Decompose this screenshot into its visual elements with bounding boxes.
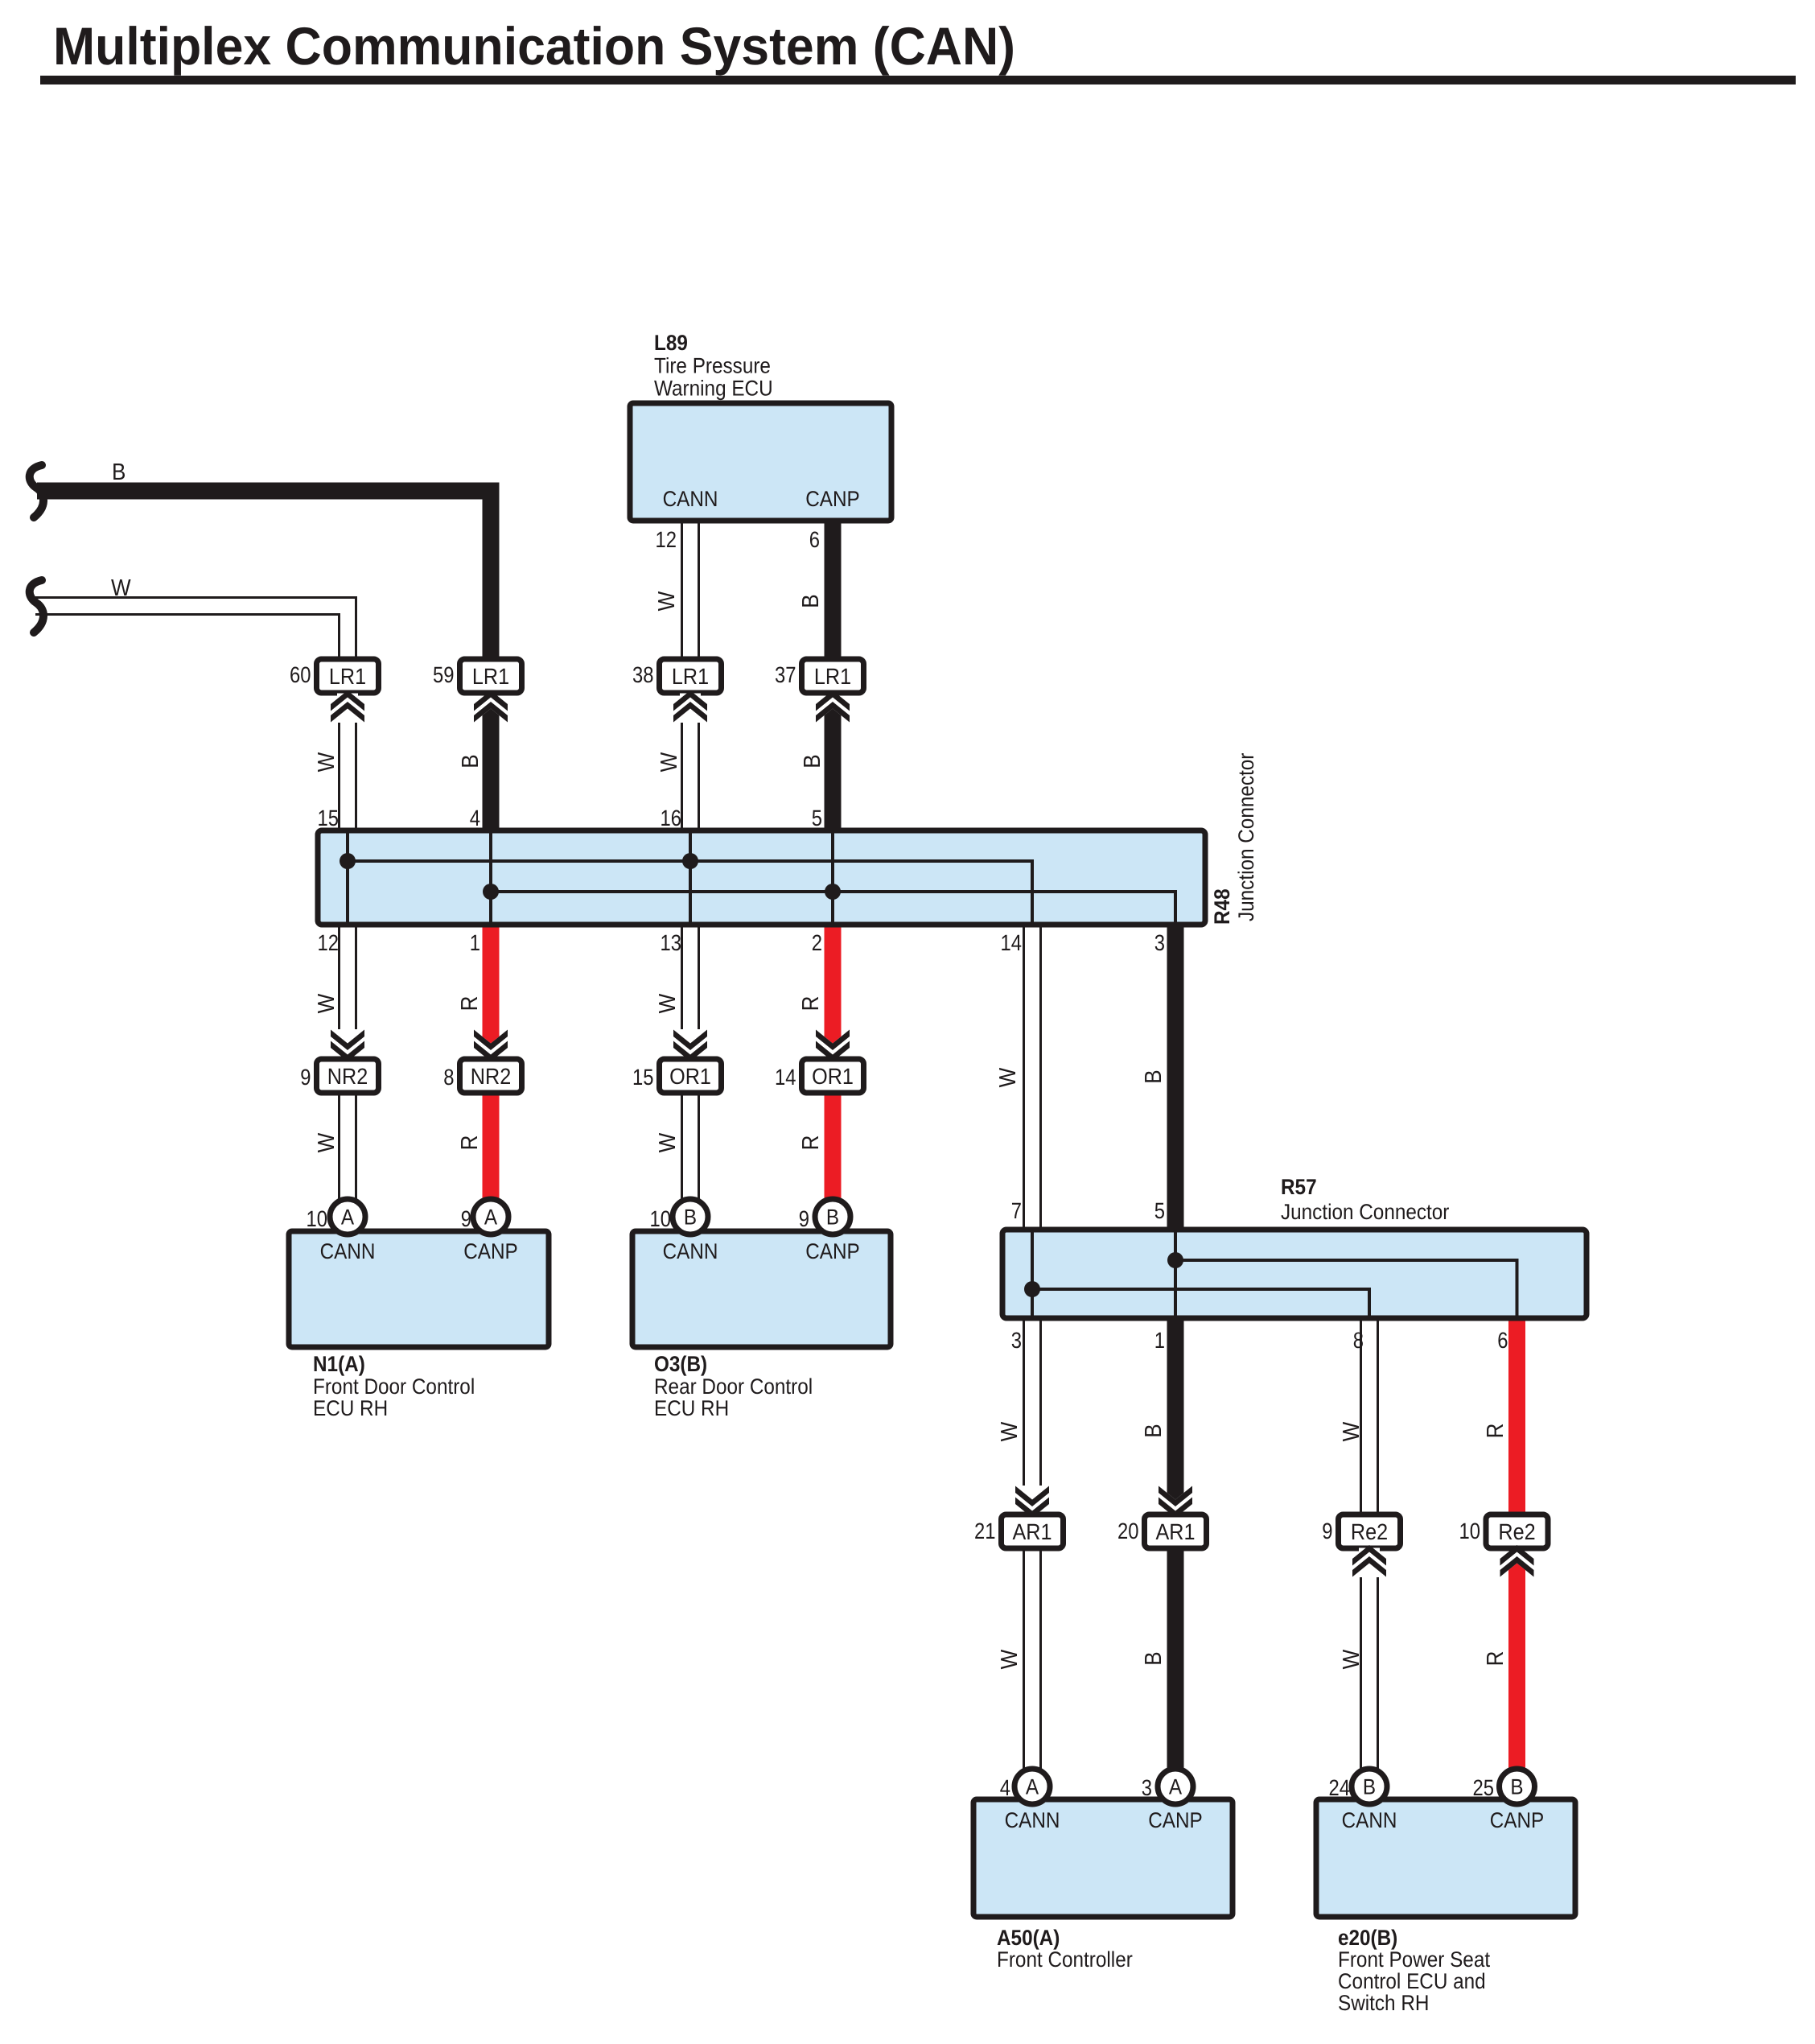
svg-text:59: 59 (433, 662, 454, 687)
svg-text:Warning ECU: Warning ECU (654, 377, 773, 401)
svg-text:B: B (800, 754, 825, 768)
svg-text:CANN: CANN (663, 487, 718, 511)
svg-text:LR1: LR1 (672, 664, 709, 689)
svg-text:CANN: CANN (320, 1239, 376, 1263)
svg-text:B: B (826, 1205, 839, 1230)
connector Re2 pin9 (1339, 1514, 1401, 1548)
wire B from LR1-59 pin4 to R48 (483, 709, 500, 831)
svg-text:W: W (314, 993, 340, 1013)
wire B from AR1-20 to A50 pin3 (1167, 1547, 1184, 1786)
svg-text:B: B (1363, 1775, 1376, 1799)
pin 4(A) on A50 (1015, 1769, 1050, 1804)
connector arrow Re2-10 (1500, 1545, 1534, 1577)
svg-text:38: 38 (632, 662, 653, 687)
ECU N1(A) Front Door Control ECU RH (289, 1231, 549, 1347)
wire B from R57 pin1 to AR1-20 (1167, 1318, 1184, 1500)
wire R from R57 pin6 to Re2-10 (1508, 1318, 1525, 1515)
svg-text:AR1: AR1 (1155, 1519, 1195, 1544)
R48 internal CANP bus line to pin3 (491, 892, 1175, 925)
svg-text:60: 60 (290, 662, 311, 687)
pin 24(B) on e20 (1352, 1769, 1387, 1804)
svg-text:Front Controller: Front Controller (997, 1947, 1133, 1972)
svg-text:8: 8 (1353, 1328, 1364, 1353)
connector arrow LR1-60 (331, 690, 364, 723)
svg-text:9: 9 (300, 1065, 311, 1090)
wire B from L89 CANP pin6 to LR1-37 (825, 518, 842, 659)
svg-text:A: A (341, 1205, 354, 1230)
svg-text:B: B (1510, 1775, 1523, 1799)
R48 internal CANN bus line to pin14 (348, 861, 1032, 925)
svg-text:B: B (684, 1205, 697, 1230)
svg-text:13: 13 (661, 930, 681, 955)
ECU L89 Tire Pressure Warning ECU (630, 403, 891, 521)
R57 internal CANN bus line to pin8 (1032, 1289, 1369, 1318)
svg-text:W: W (655, 993, 681, 1013)
svg-text:B: B (1141, 1424, 1167, 1437)
svg-text:21: 21 (974, 1519, 995, 1543)
svg-text:W: W (656, 752, 682, 772)
svg-text:8: 8 (443, 1065, 454, 1090)
svg-text:24: 24 (1329, 1775, 1350, 1800)
svg-text:25: 25 (1473, 1775, 1494, 1800)
svg-text:6: 6 (1497, 1328, 1508, 1353)
svg-text:Rear Door Control: Rear Door Control (654, 1374, 813, 1399)
R48 internal line pin16-13 (689, 833, 692, 922)
wire B from LR1-37 pin5 to R48 (825, 709, 842, 831)
connector NR2 pin8 (460, 1059, 522, 1093)
svg-text:CANN: CANN (1342, 1808, 1397, 1832)
ECU e20(B) Front Power Seat Control ECU and Switch RH (1316, 1799, 1575, 1917)
svg-text:10: 10 (650, 1206, 671, 1231)
svg-text:W: W (1339, 1649, 1364, 1669)
svg-text:1: 1 (1154, 1328, 1165, 1353)
svg-text:LR1: LR1 (329, 664, 366, 689)
svg-text:Front Power Seat: Front Power Seat (1338, 1947, 1491, 1972)
svg-text:NR2: NR2 (327, 1064, 368, 1089)
connector arrow Re2-9 (1352, 1545, 1386, 1577)
svg-text:Front Door Control: Front Door Control (313, 1374, 475, 1399)
svg-text:CANN: CANN (1005, 1808, 1060, 1832)
svg-text:CANN: CANN (663, 1239, 718, 1263)
wire R from Re2-10 to e20 pin25 (1508, 1564, 1525, 1787)
svg-text:Multiplex Communication System: Multiplex Communication System (CAN) (53, 16, 1015, 76)
svg-text:W: W (1339, 1421, 1364, 1441)
connector OR1 pin14 (802, 1059, 864, 1093)
break symbol on wire B (30, 465, 43, 517)
R57 internal CANP bus line to pin6 (1175, 1260, 1517, 1318)
pin 10(B) on O3 (673, 1199, 708, 1234)
svg-text:3: 3 (1011, 1328, 1022, 1353)
connector arrow LR1-59 (474, 690, 508, 723)
junction dot R48 at x=432 (340, 853, 356, 869)
wire W from Re2-9 to e20 pin24 (1361, 1547, 1378, 1786)
connector AR1 pin20 (1145, 1514, 1207, 1548)
connector Re2 pin10 (1486, 1514, 1548, 1548)
svg-text:CANP: CANP (1490, 1808, 1545, 1832)
wire R from NR2-8 to N1 pin9 (483, 1093, 500, 1217)
svg-text:4: 4 (470, 806, 480, 830)
svg-text:A: A (1169, 1775, 1182, 1799)
svg-text:W: W (995, 1067, 1021, 1087)
connector arrow LR1-38 (673, 690, 707, 723)
svg-text:W: W (997, 1421, 1023, 1441)
connector arrow NR2-9 (331, 1029, 364, 1061)
R48 internal line pin15-12 (346, 833, 349, 922)
svg-text:R: R (457, 1135, 483, 1151)
svg-text:37: 37 (775, 662, 796, 687)
svg-text:Switch RH: Switch RH (1338, 1991, 1429, 2015)
svg-text:AR1: AR1 (1012, 1519, 1052, 1544)
wire W from L89 CANN pin12 to LR1-38 (682, 521, 699, 659)
wire W from OR1-15 to O3 pin10 (682, 1093, 699, 1217)
break symbol on wire W (30, 580, 43, 633)
wire R from R48 pin2 to OR1-14 (825, 925, 842, 1044)
wire W from R48 pin14 to R57 pin7 (1024, 925, 1041, 1230)
svg-text:12: 12 (656, 527, 677, 552)
svg-text:4: 4 (1000, 1775, 1010, 1800)
svg-text:14: 14 (1001, 930, 1022, 955)
svg-text:A: A (1026, 1775, 1039, 1799)
connector LR1 pin60 (317, 659, 379, 693)
svg-text:W: W (654, 591, 680, 611)
junction dot R48 at x=858 (682, 853, 698, 869)
svg-text:B: B (112, 459, 126, 485)
svg-text:9: 9 (461, 1206, 471, 1231)
junction connector R48 (318, 830, 1205, 925)
wire W from R57 pin8 to Re2-9 (1361, 1318, 1378, 1515)
junction dot R57 on pin7 line (1024, 1281, 1040, 1297)
svg-text:CANP: CANP (805, 1239, 860, 1263)
svg-text:B: B (1141, 1651, 1167, 1665)
svg-text:L89: L89 (654, 331, 688, 355)
R57 internal line pin5-1 (1174, 1232, 1177, 1316)
R48 internal line pin4-1 (489, 833, 492, 922)
svg-text:Junction Connector: Junction Connector (1281, 1200, 1449, 1224)
svg-text:12: 12 (318, 930, 339, 955)
wire R from OR1-14 to O3 pin9 (825, 1093, 842, 1217)
svg-text:R: R (1483, 1651, 1508, 1667)
wire W horizontal from off-page (35, 599, 347, 613)
pin 9(A) on N1 (473, 1199, 508, 1234)
junction connector R57 (1002, 1230, 1587, 1318)
connector LR1 pin59 (460, 659, 522, 693)
pin 3(A) on A50 (1158, 1769, 1193, 1804)
svg-text:2: 2 (812, 930, 822, 955)
connector arrow NR2-8 (474, 1030, 508, 1062)
connector NR2 pin9 (317, 1059, 379, 1093)
svg-text:R: R (798, 1135, 824, 1151)
wire B horizontal from off-page (37, 491, 491, 664)
junction dot R48 at x=610 (483, 884, 499, 900)
svg-text:16: 16 (661, 806, 681, 830)
svg-text:3: 3 (1142, 1775, 1152, 1800)
pin 9(B) on O3 (815, 1199, 850, 1234)
ECU A50(A) Front Controller (973, 1799, 1233, 1917)
svg-text:R: R (457, 996, 483, 1012)
svg-text:OR1: OR1 (812, 1064, 854, 1089)
connector arrow AR1-21 (1015, 1486, 1049, 1518)
svg-text:Re2: Re2 (1498, 1519, 1535, 1544)
svg-text:CANP: CANP (805, 487, 860, 511)
connector LR1 pin37 (802, 659, 864, 693)
wire W from LR1-38 pin16 to R48 (682, 693, 699, 830)
svg-text:7: 7 (1011, 1198, 1022, 1223)
svg-text:ECU RH: ECU RH (654, 1396, 729, 1420)
svg-text:W: W (314, 1132, 340, 1152)
pin 10(A) on N1 (330, 1199, 365, 1234)
svg-text:R48: R48 (1210, 888, 1234, 925)
connector arrow LR1-37 (816, 690, 850, 723)
svg-text:9: 9 (799, 1206, 809, 1231)
svg-text:W: W (314, 752, 340, 772)
svg-text:NR2: NR2 (471, 1064, 511, 1089)
wire B from R48 pin3 to R57 pin5 (1167, 925, 1184, 1230)
wire W from AR1-21 to A50 pin4 (1024, 1547, 1041, 1786)
svg-text:3: 3 (1154, 930, 1165, 955)
svg-text:CANP: CANP (1148, 1808, 1203, 1832)
svg-text:CANP: CANP (463, 1239, 518, 1263)
R57 internal line pin7-3 (1031, 1232, 1034, 1316)
svg-text:20: 20 (1117, 1519, 1138, 1543)
svg-text:OR1: OR1 (669, 1064, 711, 1089)
wire W from R57 pin3 to AR1-21 (1024, 1318, 1041, 1515)
svg-text:B: B (458, 754, 484, 768)
ECU O3(B) Rear Door Control ECU RH (632, 1231, 891, 1347)
connector arrow OR1-15 (673, 1029, 707, 1061)
svg-text:Tire Pressure: Tire Pressure (654, 354, 771, 378)
svg-text:B: B (798, 594, 824, 608)
svg-text:10: 10 (307, 1206, 327, 1231)
svg-text:W: W (997, 1649, 1023, 1669)
svg-text:A50(A): A50(A) (997, 1926, 1060, 1950)
wire W from LR1-60 pin15 to R48 (340, 693, 356, 830)
svg-text:5: 5 (812, 806, 822, 830)
svg-text:14: 14 (775, 1065, 796, 1090)
svg-text:6: 6 (809, 527, 820, 552)
svg-text:10: 10 (1459, 1519, 1480, 1543)
svg-text:R: R (798, 996, 824, 1012)
svg-text:R57: R57 (1281, 1175, 1317, 1199)
svg-text:Re2: Re2 (1351, 1519, 1388, 1544)
svg-text:R: R (1483, 1424, 1508, 1439)
connector OR1 pin15 (660, 1059, 722, 1093)
svg-text:9: 9 (1322, 1519, 1332, 1543)
svg-text:Junction Connector: Junction Connector (1234, 753, 1258, 921)
svg-text:ECU RH: ECU RH (313, 1396, 388, 1420)
svg-text:Control ECU and: Control ECU and (1338, 1969, 1486, 1993)
junction dot R48 at x=1035 (825, 884, 841, 900)
connector arrow OR1-14 (816, 1030, 850, 1062)
R48 internal line pin5-2 (831, 833, 834, 922)
svg-text:15: 15 (318, 806, 339, 830)
junction dot R57 on pin5 line (1167, 1252, 1183, 1268)
svg-text:LR1: LR1 (472, 664, 509, 689)
svg-text:15: 15 (632, 1065, 653, 1090)
svg-text:1: 1 (470, 930, 480, 955)
pin 25(B) on e20 (1500, 1769, 1535, 1804)
svg-text:5: 5 (1154, 1198, 1165, 1223)
connector AR1 pin21 (1002, 1514, 1064, 1548)
wire W from NR2-9 to N1 pin10 (340, 1093, 356, 1217)
wire R from R48 pin1 to NR2-8 (483, 925, 500, 1044)
connector arrow AR1-20 (1159, 1486, 1192, 1519)
svg-text:e20(B): e20(B) (1338, 1926, 1397, 1950)
wire W from R48 pin13 to OR1-15 (682, 925, 699, 1059)
svg-text:W: W (111, 575, 131, 601)
svg-text:A: A (484, 1205, 497, 1230)
svg-text:B: B (1141, 1069, 1167, 1083)
svg-text:N1(A): N1(A) (313, 1352, 365, 1376)
connector LR1 pin38 (660, 659, 722, 693)
svg-text:O3(B): O3(B) (654, 1352, 707, 1376)
svg-text:LR1: LR1 (814, 664, 851, 689)
svg-text:W: W (655, 1132, 681, 1152)
wire W from R48 pin12 to NR2-9 (340, 925, 356, 1059)
